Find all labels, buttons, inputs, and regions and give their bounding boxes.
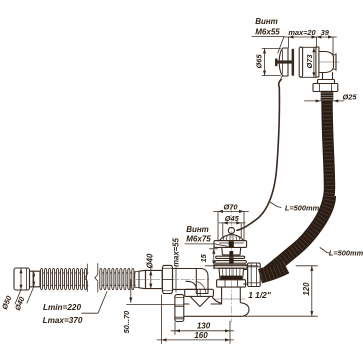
outlet hose corrugations [41,268,136,289]
overflow hose curve section (slightly wider) [268,196,330,272]
drain top flange plate [214,241,247,248]
svg-text:Lmin=220: Lmin=220 [43,303,81,312]
overflow corrugated hose (dark) [268,100,330,272]
svg-text:Ø40: Ø40 [145,253,154,268]
drain washer plate 2 [215,261,246,264]
cover plate chain hook [281,76,283,80]
siphon inlet pipe [146,270,163,288]
drain lower cup (ribbed) [219,268,244,280]
plug cap [219,235,243,241]
plug chain (beaded) [237,80,281,231]
plug knob [228,227,234,233]
svg-text:Винт: Винт [186,225,209,234]
svg-text:Ø70: Ø70 [224,203,239,212]
leader for L labels [82,292,108,314]
siphon pipe to elbow [173,269,197,290]
drain neck [222,247,241,255]
tee body [221,287,223,303]
drain vertical centerline [230,206,232,322]
overflow gasket disc [299,47,302,77]
svg-text:М6х75: М6х75 [186,235,211,244]
svg-text:max=20: max=20 [288,28,316,37]
overflow screw M6x55 [275,58,278,66]
svg-text:50...70: 50...70 [122,310,131,333]
svg-text:L=500mm: L=500mm [329,248,363,257]
siphon spigot (hose side) [139,270,146,288]
siphon horizontal centerline [136,279,209,281]
svg-text:160: 160 [194,331,208,340]
drain screw stem (dark) [229,241,234,247]
label L=500mm (hose) [320,248,330,254]
svg-text:Ø25: Ø25 [343,92,358,101]
label L=500mm (chain) [270,202,281,208]
overflow pipe flange ring [318,80,335,84]
siphon cone union nut [185,289,214,296]
siphon elbow [186,269,208,294]
outlet hose end cuff [14,268,30,290]
svg-text:L=500mm: L=500mm [285,204,320,213]
overflow nut [313,84,338,92]
tee side spigot [244,270,248,285]
svg-text:max=55: max=55 [171,237,180,266]
svg-text:Ø73: Ø73 [305,54,314,69]
overflow assembly centerline [319,61,339,63]
svg-text:15: 15 [199,253,208,262]
drain bottom flange (widest) [214,265,247,268]
svg-text:120: 120 [302,282,311,296]
tee bottom corner into chamber [240,302,249,316]
overflow cover plate [279,48,288,76]
outlet hose neck [30,271,41,287]
svg-text:Lmax=370: Lmax=370 [43,316,83,325]
hose end collar [135,272,139,288]
overflow hose end sleeve (fat) [260,267,286,277]
svg-text:39: 39 [321,28,330,37]
svg-text:1 1/2": 1 1/2" [248,290,272,300]
svg-text:М6х55: М6х55 [255,28,280,37]
overflow elbow body [316,47,319,77]
svg-text:130: 130 [197,322,211,331]
siphon trap cone [190,296,210,306]
siphon union nut (left) [162,265,172,293]
elbow socket arc [196,282,206,294]
siphon bottom chamber [184,298,240,317]
drain union nut [217,280,246,287]
drain washer plate 1 [216,256,245,258]
overflow threaded pipe (dark) [321,91,334,101]
svg-text:Винт: Винт [255,17,278,26]
tee horizontal centerline [214,298,245,300]
svg-text:Ø65: Ø65 [254,54,263,69]
tee side nut [248,263,261,287]
outlet hose break symbol [84,264,98,293]
siphon end cap (ribbed, left) [175,295,184,322]
